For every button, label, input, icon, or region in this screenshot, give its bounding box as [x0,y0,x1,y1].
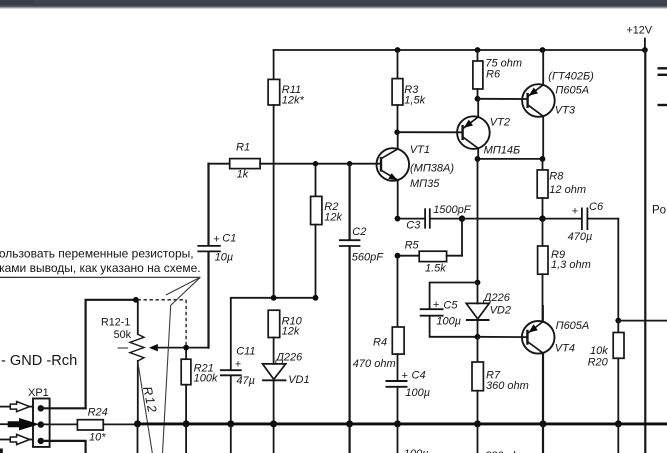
wire VT4 collector to bottom rail [542,353,544,424]
wire to VT2 base [397,131,463,133]
svg-text:R6: R6 [486,69,501,81]
transistor VT4 (П605А PNP) [522,320,589,354]
resistor R24 [41,407,138,444]
transistor VT2 (МП14Б PNP) [457,116,520,156]
svg-text:C2: C2 [352,226,366,238]
svg-text:П605А: П605А [556,320,590,332]
wire VT3 emitter stub [542,50,544,85]
wire VT3 collector stub [542,116,544,159]
capacitor C5 (bypass branch) [420,283,478,337]
svg-text:10k: 10k [590,345,608,357]
wire VT4 base [478,336,528,338]
svg-text:- GND -Rch: - GND -Rch [1,353,77,369]
svg-text:12k: 12k [324,212,342,224]
svg-text:+: + [433,299,440,311]
pot wiper arrow and wire to C1 column [149,344,209,351]
node R20 top [615,318,621,324]
resistor R6 [473,50,522,99]
connector pin 2 arrow (filled) [0,418,39,430]
svg-text:R20: R20 [588,357,609,369]
pointer line to wiper [166,277,200,295]
svg-text:1k: 1k [237,169,249,181]
diode VD2 (Д226) [466,283,511,337]
power terminal marks (cut off at right edge) [658,68,667,105]
svg-text:+: + [572,206,579,218]
wire connector corner to pot top [86,300,136,409]
top toolbar bar [0,0,667,10]
svg-text:1.5k: 1.5k [425,263,446,275]
note underline [0,276,200,278]
svg-text:47µ: 47µ [236,375,255,387]
svg-text:C11: C11 [236,345,255,357]
connector pin 3 arrow (outline) [0,434,33,444]
svg-text:100µ: 100µ [436,316,461,328]
svg-text:12 ohm: 12 ohm [549,184,586,196]
right vertical rail [644,50,646,453]
resistor R10 [268,310,302,364]
node wiper/R21 [183,345,189,351]
wire pin3 down [41,441,86,453]
ground bus (bottom rail) [136,422,667,425]
resistor R5 [398,219,463,275]
node ties [475,156,481,162]
wire mid-left horizontal (C11/R10/R2 tie) [231,298,316,370]
svg-text:+: + [213,233,220,245]
resistor R1 [209,142,382,181]
svg-text:R24: R24 [88,407,108,419]
wire to VT3 base [478,98,528,100]
svg-text:VT4: VT4 [555,342,575,354]
svg-text:C5: C5 [443,300,458,312]
connector pin 1 arrow (outline) [0,402,33,412]
svg-text:560pF: 560pF [352,252,384,264]
svg-text:10*: 10* [89,431,106,443]
resistor R21 [181,348,218,424]
svg-text:R5: R5 [405,239,420,251]
svg-text:C4: C4 [412,369,426,381]
svg-text:R4: R4 [373,336,387,348]
resistor R20 [588,321,624,424]
pot left tick [118,347,129,349]
wire VT2 collector node down to VD2 node [477,159,479,283]
svg-text:+12V: +12V [627,25,653,37]
svg-text:C3: C3 [406,219,421,231]
+12V stub [644,39,646,51]
svg-text:1,5k: 1,5k [404,95,425,107]
svg-text:C1: C1 [222,233,236,245]
resistor R9 [538,219,591,322]
pointer line to R12 wiring [163,277,201,453]
svg-text:R8: R8 [549,171,564,183]
node C5/VD2 top [475,280,481,286]
resistor R7 [472,337,529,424]
capacitor C3 [398,204,472,232]
wire pin1 to corner column [41,407,86,409]
svg-text:470µ: 470µ [568,231,593,243]
capacitor C4 [386,369,431,424]
svg-text:100µ: 100µ [404,448,429,453]
svg-text:VD2: VD2 [490,304,511,316]
svg-text:360 ohm: 360 ohm [486,380,529,392]
svg-text:R1: R1 [236,142,250,154]
svg-text:1,3 ohm: 1,3 ohm [551,259,591,271]
dashed remote wiring [138,300,187,346]
node R2 bottom [313,295,319,301]
svg-text:100k: 100k [194,372,218,384]
resistor R4 [353,327,404,380]
wire VT1 emitter column [397,180,399,218]
+12V supply rail (top) [274,49,646,51]
svg-text:+: + [401,370,408,382]
wire VT4 emitter stub [542,306,544,322]
svg-text:МП35: МП35 [410,178,440,190]
svg-text:ками выводы, как указано на сх: ками выводы, как указано на схеме. [0,261,201,275]
svg-text:П605А: П605А [555,84,589,96]
cut-off mark bottom-left edge [0,449,3,453]
node R5 left / emitter column [395,253,401,259]
svg-text:10µ: 10µ [215,252,234,264]
wire VT2/VT3 collector tie [478,158,543,160]
resistor R3 [392,50,425,132]
potentiometer R12-1 [101,300,144,424]
node C3 left [395,216,401,222]
node VD2/R7/VT4 base [475,334,481,340]
connector XP1 [28,387,50,447]
node R1/C2 [347,161,352,166]
svg-text:(МП38А): (МП38А) [410,162,454,174]
resistor R2 [311,164,343,298]
resistor R11 [268,50,304,298]
svg-text:Po: Po [652,205,666,217]
node C3/R5 output [459,215,465,221]
svg-text:12k*: 12k* [282,95,305,107]
svg-text:C6: C6 [589,201,604,213]
svg-text:VT2: VT2 [490,117,510,129]
svg-text:R12-1: R12-1 [101,316,130,328]
capacitor C2 [339,164,384,424]
capacitor C6 [543,201,619,243]
wire C3 node to R9/C6 node [462,218,543,220]
wires continuing below rail [138,424,619,453]
wire VT2 emitter stub [477,99,479,117]
transistor VT1 (МП35 NPN) [377,144,455,190]
R12 leader line [138,363,152,453]
wire C6 to R20 node [617,219,619,321]
wire VT2 collector stub [477,148,479,159]
node: rail junction dots [395,47,648,53]
svg-text:470 ohm: 470 ohm [353,358,396,370]
wire VT1 collector stub [397,132,399,149]
diode VD1 (Д226) [262,351,310,424]
svg-text:1500pF: 1500pF [433,204,472,216]
bottom rail junction dots [134,420,622,427]
svg-text:VT1: VT1 [410,144,430,156]
wire R20 node to right edge [618,320,667,322]
transistor VT3 (П605А PNP) [522,70,594,116]
svg-text:Д226: Д226 [274,351,303,363]
svg-text:пользовать переменные резистор: пользовать переменные резисторы, [0,247,194,261]
note text [0,247,201,275]
capacitor C11 [220,345,256,424]
node pot top [133,297,139,303]
svg-text:VD1: VD1 [288,374,309,386]
svg-text:(ГТ402Б): (ГТ402Б) [548,70,594,82]
node R10 top [271,295,277,301]
node R6 / VT2 emitter / VT3 base [475,96,481,102]
svg-text:+: + [235,359,242,371]
node R1/R2 [313,161,318,166]
svg-text:50k: 50k [114,329,132,341]
svg-text:VT3: VT3 [555,104,576,116]
svg-text:100µ: 100µ [405,387,430,399]
svg-text:МП14Б: МП14Б [484,144,521,156]
capacitor C1 [197,164,236,348]
svg-text:12k: 12k [282,326,300,338]
node R8/R9/C6 [539,215,545,221]
wire emitter column to R4 [397,256,399,327]
resistor R8 [537,159,586,219]
svg-text:Д226: Д226 [482,292,511,304]
node VT1 collector / VT2 base [394,130,399,135]
svg-text:XP1: XP1 [28,387,49,399]
